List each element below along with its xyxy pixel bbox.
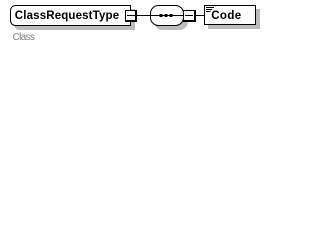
- Code text-content icon line 1: [206, 7, 214, 8]
- element Code box: [205, 6, 256, 25]
- sequence icon dot 2: [165, 14, 168, 17]
- background: [0, 0, 270, 47]
- wire box1 to sequence: [135, 15, 150, 16]
- sequence compositor octagon: [151, 6, 184, 26]
- complexType ClassRequestType box: [11, 6, 131, 26]
- sequence compositor shadow: [155, 10, 188, 30]
- svg-text:ClassRequestType: ClassRequestType: [15, 10, 119, 22]
- sequence icon dot 3: [170, 14, 173, 17]
- complexType ClassRequestType shadow: [15, 10, 135, 30]
- svg-text:Class: Class: [13, 32, 35, 43]
- sequence icon dot 1: [160, 14, 163, 17]
- sequence icon line: [150, 15, 183, 16]
- Code text-content icon line 3: [206, 11, 211, 12]
- wire sequence to Code: [183, 15, 204, 16]
- element Code shadow: [208, 9, 260, 29]
- svg-text:Code: Code: [211, 10, 241, 22]
- Code text-content icon line 2: [206, 9, 212, 10]
- expand handle on sequence: [183, 10, 196, 22]
- expand handle on ClassRequestType: [125, 10, 137, 22]
